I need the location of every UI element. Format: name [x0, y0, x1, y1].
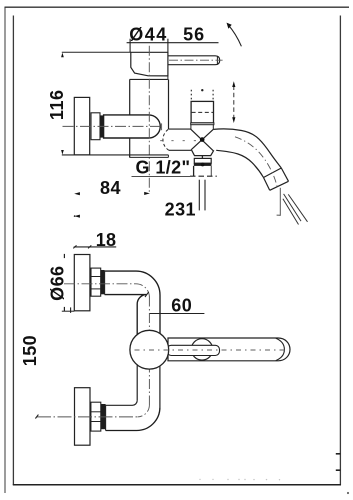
- cap base ring: [130, 78, 168, 80]
- hex nut dark facet: [100, 115, 104, 137]
- arrowhead 84 left: [74, 192, 80, 195]
- nut dark facet: [101, 404, 106, 429]
- wall flange (top): [74, 255, 90, 311]
- faint dotted trace near bottom frame: [199, 479, 280, 481]
- spout outer curve: [213, 129, 281, 168]
- frame border right: [339, 16, 341, 486]
- knob neck: [190, 125, 192, 129]
- eccentric connector pipe: [104, 115, 161, 138]
- pipe left end: [104, 271, 106, 295]
- extension line 116 top: [62, 51, 131, 53]
- body bottom line / 116 extension: [62, 154, 169, 156]
- knob hidden line: [192, 111, 213, 113]
- svg-text:Ø44: Ø44: [129, 24, 168, 44]
- dimension line 18: [74, 246, 117, 248]
- frame centering tick 1: [336, 453, 341, 455]
- body cylinder left edge (lower): [129, 138, 131, 157]
- oblique tick 18 left: [73, 245, 76, 248]
- wall flange (bottom): [75, 388, 91, 446]
- Ø66 tick top: [63, 254, 65, 258]
- arrowhead 231 left (at wall plane): [74, 215, 80, 218]
- vertical centerline: [148, 297, 150, 406]
- aerator right edge: [281, 168, 288, 181]
- bottom elbow outer: [106, 407, 160, 430]
- lever rod centerline: [169, 59, 223, 61]
- bottom centerline: [37, 416, 137, 418]
- body vertical centerline: [148, 46, 150, 193]
- pipes below ball: [136, 365, 138, 401]
- water stream line: [279, 188, 281, 216]
- diverter knob: [191, 101, 213, 123]
- label underline / hidden line: [132, 175, 191, 177]
- wall flange: [74, 97, 89, 154]
- svg-text:Ø66: Ø66: [48, 266, 68, 301]
- junction X diagonal 2: [191, 129, 213, 149]
- nut dark facet: [101, 270, 105, 294]
- tick 150 bottom: [35, 415, 38, 419]
- oblique tick 18 right: [88, 245, 91, 248]
- diverter knob pulled position dotted: [190, 90, 192, 101]
- flange bottom extension: [62, 310, 75, 312]
- aerator left edge: [264, 178, 270, 191]
- junction centerline: [160, 140, 203, 142]
- lever grip: [168, 338, 290, 361]
- svg-text:56: 56: [183, 24, 205, 44]
- extension line cap right: [167, 39, 169, 53]
- inlet centerline top: [64, 283, 136, 285]
- pipe left end: [105, 405, 107, 430]
- frame border bottom: [13, 484, 341, 486]
- cartridge cap: [131, 52, 168, 76]
- tick: [70, 307, 72, 313]
- lever stem: [167, 345, 220, 355]
- pivot circle: [191, 339, 212, 360]
- dimension line Ø44/56: [127, 42, 219, 44]
- body base second line: [130, 156, 169, 158]
- frame centering tick 2: [336, 469, 341, 471]
- spout centerline: [235, 137, 277, 188]
- Ø66 tick bottom: [63, 307, 65, 311]
- G1/2 connector dark band: [194, 163, 212, 166]
- drawing sheet edge line (left): [4, 7, 6, 493]
- arrowhead 116 top: [61, 53, 64, 58]
- extension line cap left: [129, 39, 131, 53]
- small cross dash: [161, 123, 163, 130]
- aerator end face: [270, 181, 289, 190]
- pipe top edge + outer elbow: [105, 271, 160, 334]
- G1/2 connector band: [194, 158, 211, 163]
- junction pentagon top: [169, 128, 191, 130]
- svg-text:60: 60: [171, 296, 192, 316]
- connector legs: [193, 166, 195, 176]
- grip cap arc: [276, 338, 285, 360]
- drawing sheet edge line (top): [5, 6, 350, 8]
- svg-text:150: 150: [20, 335, 40, 366]
- junction bottom outline: [192, 150, 214, 155]
- knob flange: [191, 123, 214, 125]
- bottom elbow inner: [106, 401, 138, 406]
- corner dot bottom right: [347, 492, 349, 494]
- inlet centerline: [63, 125, 161, 127]
- junction X diagonal 1: [191, 129, 214, 151]
- svg-text:84: 84: [100, 178, 121, 198]
- G1/2 connector center tick: [201, 156, 203, 159]
- hex nut (bottom): [91, 402, 101, 431]
- lever rod end face: [216, 56, 218, 64]
- spray line 1: [284, 194, 301, 221]
- dimension line 60: [149, 313, 204, 315]
- junction center dot: [200, 137, 205, 142]
- spray line 2: [288, 194, 307, 221]
- svg-text:116: 116: [47, 90, 67, 121]
- lever handle rod: [168, 56, 220, 65]
- oblique tick 60: [145, 292, 149, 297]
- spray line 3: [283, 199, 299, 225]
- spout inner curve: [216, 150, 263, 177]
- ball joint: [130, 330, 169, 369]
- frame border left: [12, 16, 14, 486]
- body cylinder left edge (upper): [129, 79, 131, 115]
- hex nut (top): [91, 268, 101, 296]
- rotation arrow: [228, 25, 241, 46]
- arrowhead 116 bottom: [61, 150, 64, 155]
- junction hidden arc: [163, 129, 169, 150]
- hex nut: [91, 113, 100, 140]
- svg-text:G 1/2": G 1/2": [136, 158, 191, 178]
- arrowhead 84 right: [144, 192, 150, 195]
- body cylinder right edge: [168, 79, 170, 129]
- lever centerline: [135, 349, 287, 351]
- aerator joint line: [264, 168, 282, 178]
- shower hose pipes: [198, 180, 200, 211]
- pipe bottom edge + inner elbow: [105, 295, 147, 335]
- diverter travel arrow (double headed, dashed): [233, 86, 235, 120]
- svg-text:231: 231: [165, 200, 196, 220]
- junction pentagon bottom: [169, 149, 192, 151]
